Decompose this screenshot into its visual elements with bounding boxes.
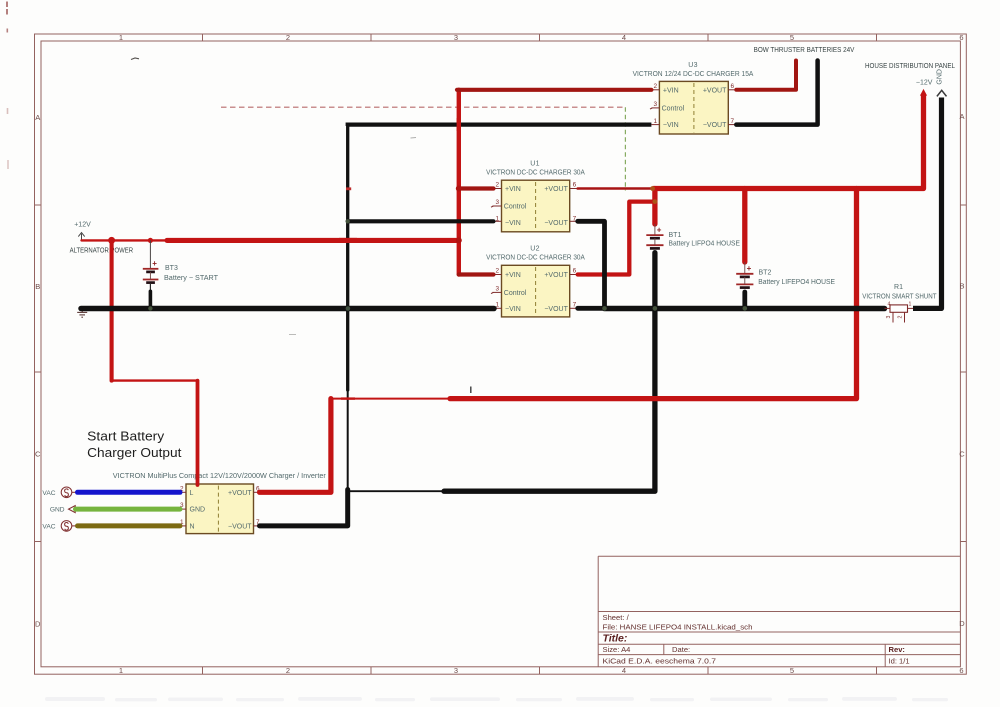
svg-text:2: 2	[495, 182, 499, 189]
svg-text:C: C	[35, 450, 41, 459]
svg-text:Start Battery: Start Battery	[87, 428, 165, 443]
svg-text:+VIN: +VIN	[505, 186, 521, 193]
svg-text:VICTRON SMART SHUNT: VICTRON SMART SHUNT	[862, 293, 937, 300]
wire alternator bus thick	[167, 238, 459, 243]
svg-text:1: 1	[119, 666, 123, 675]
svg-text:1: 1	[909, 302, 912, 308]
junction -VOUT joiner/bus	[602, 306, 607, 311]
wire alternator feed thin	[82, 239, 171, 241]
svg-text:+VOUT: +VOUT	[703, 87, 727, 94]
resistor R1 shunt	[885, 302, 914, 323]
page-edge dash-dot artifact	[7, 2, 8, 170]
junction bus/U1 out	[650, 186, 655, 191]
U1 pin numbers	[495, 182, 576, 223]
ground symbol	[77, 308, 87, 317]
junction BT1 drop/U2 link	[653, 199, 658, 204]
svg-text:Sheet: /: Sheet: /	[603, 613, 630, 622]
wire AC neutral olive	[78, 523, 181, 528]
wire U3 +VOUT to bow thruster	[736, 61, 796, 90]
svg-text:1: 1	[653, 118, 657, 125]
U2 pin stubs	[491, 275, 578, 309]
svg-text:VICTRON 12/24 DC-DC CHARGER 15: VICTRON 12/24 DC-DC CHARGER 15A	[633, 69, 754, 78]
svg-text:B: B	[959, 282, 964, 291]
svg-text:3: 3	[495, 199, 499, 206]
wire ground bus right segment	[605, 306, 885, 312]
op-amp U1 body	[502, 180, 570, 232]
battery BT3	[143, 240, 159, 291]
wire start-charger drop	[110, 240, 114, 380]
wire U3 -VOUT to bow thruster	[736, 61, 817, 125]
junction riser/U1 feed	[456, 186, 462, 192]
svg-text:+12V: +12V	[74, 222, 91, 229]
junction inverter minus riser	[345, 488, 350, 493]
svg-text:3: 3	[495, 286, 499, 293]
wire overpaint patches (red over black crossings)	[339, 238, 357, 243]
svg-text:BT2: BT2	[759, 270, 772, 277]
wire AC line blue	[78, 490, 181, 495]
junction BT1 drop/bus	[653, 306, 658, 311]
svg-text:+VIN: +VIN	[505, 272, 521, 279]
wire thin link to inverter minus	[348, 490, 446, 492]
svg-text:BT1: BT1	[669, 232, 682, 239]
svg-text:+VOUT: +VOUT	[544, 186, 568, 193]
svg-text:−VOUT: −VOUT	[544, 220, 568, 227]
svg-text:2: 2	[653, 83, 657, 90]
svg-text:GND: GND	[937, 69, 944, 85]
svg-text:VAC: VAC	[42, 490, 55, 497]
junction bus/shunt drop	[854, 186, 859, 191]
svg-text:2: 2	[495, 268, 499, 275]
svg-text:VICTRON MultiPlus Compact 12V/: VICTRON MultiPlus Compact 12V/120V/2000W…	[113, 471, 327, 480]
svg-text:−VIN: −VIN	[505, 220, 521, 227]
wire BT1 positive drop	[652, 189, 657, 225]
svg-text:VAC: VAC	[42, 523, 55, 530]
svg-text:6: 6	[959, 33, 963, 42]
U4 pin numbers	[180, 485, 260, 526]
wire U1 +VIN feed	[459, 186, 494, 190]
junction BT3/ground bus	[148, 306, 152, 310]
op-amp U2 body	[502, 265, 570, 317]
wire BT2 positive drop	[742, 189, 747, 263]
wire house GND drop	[913, 98, 942, 309]
svg-text:Battery LIFEPO4 HOUSE: Battery LIFEPO4 HOUSE	[758, 279, 835, 286]
svg-text:U3: U3	[688, 62, 698, 69]
svg-text:R1: R1	[894, 284, 903, 291]
wire U3 +VIN feed	[457, 88, 651, 92]
wire AC ground green	[76, 507, 181, 512]
TITLE-BLOCK	[598, 556, 960, 667]
wire BT1 negative drop long	[444, 253, 655, 492]
svg-text:Charger Output: Charger Output	[87, 445, 182, 460]
wire U1/U2 -VOUT joiner	[578, 221, 605, 308]
svg-text:3: 3	[886, 316, 892, 319]
svg-text:3: 3	[454, 666, 458, 675]
wire U1 +VOUT medium	[578, 187, 653, 190]
svg-text:Control: Control	[504, 204, 527, 211]
U4 pin names	[190, 490, 253, 531]
U2 pin numbers	[495, 268, 576, 309]
svg-text:VICTRON DC-DC CHARGER 30A: VICTRON DC-DC CHARGER 30A	[486, 167, 585, 176]
wire thin link to inverter plus	[331, 398, 452, 400]
svg-text:KiCad E.D.A. eeschema 7.0.7: KiCad E.D.A. eeschema 7.0.7	[603, 657, 717, 666]
connector GND arrow	[50, 506, 75, 514]
svg-text:Battery − START: Battery − START	[164, 275, 219, 282]
svg-text:2: 2	[286, 33, 290, 42]
wire U1 -VIN feed	[348, 219, 494, 223]
wire shunt feed drop	[450, 189, 857, 399]
connector J2 VAC neutral	[42, 521, 78, 532]
U4 pin stubs	[180, 492, 260, 526]
U2 pin names	[504, 272, 569, 313]
svg-text:6: 6	[959, 666, 963, 675]
wire U2 +VOUT up-link	[578, 202, 655, 275]
svg-text:−12V: −12V	[916, 80, 933, 87]
inverter U4 MultiPlus body	[186, 484, 254, 534]
power arrow GND chevron	[937, 69, 947, 96]
svg-text:6: 6	[573, 182, 577, 189]
svg-text:5: 5	[790, 666, 794, 675]
U1 pin names	[504, 186, 569, 227]
wire BT3 to gnd bus	[149, 291, 153, 308]
svg-text:−VOUT: −VOUT	[703, 122, 727, 129]
junction riser/ground bus	[346, 306, 351, 311]
svg-text:Rev:: Rev:	[889, 645, 905, 654]
svg-text:BOW THRUSTER BATTERIES 24V: BOW THRUSTER BATTERIES 24V	[754, 45, 856, 54]
svg-text:D: D	[959, 619, 965, 628]
junction BT2 stub/bus	[743, 306, 748, 311]
svg-text:4: 4	[622, 666, 626, 675]
wire red riser to chargers	[457, 90, 461, 275]
wire BT2 negative stub	[742, 292, 747, 308]
wire U2 -VOUT stub	[578, 306, 605, 311]
svg-text:Id: 1/1: Id: 1/1	[889, 657, 910, 666]
power arrow -12V	[916, 80, 933, 96]
svg-text:3: 3	[454, 33, 458, 42]
stray mark artifacts	[131, 58, 139, 60]
wire house +12V bus thick	[653, 96, 924, 189]
svg-text:Control: Control	[504, 290, 527, 297]
svg-text:−VOUT: −VOUT	[228, 523, 252, 530]
stray red stub on riser	[346, 187, 351, 190]
U3 pin numbers	[653, 83, 734, 125]
svg-text:Battery LIFPO4 HOUSE: Battery LIFPO4 HOUSE	[669, 241, 741, 248]
wire inverter +VOUT corner	[260, 399, 331, 493]
svg-text:+: +	[747, 264, 752, 273]
U3 pin names	[662, 87, 728, 129]
svg-text:4: 4	[888, 302, 891, 308]
svg-text:−VIN: −VIN	[663, 122, 679, 129]
svg-text:−VOUT: −VOUT	[544, 306, 568, 313]
junction bus/BT2 drop	[742, 186, 747, 191]
svg-text:1: 1	[119, 33, 123, 42]
svg-text:File: HANSE LIFEPO4 INSTALL.ki: File: HANSE LIFEPO4 INSTALL.kicad_sch	[603, 623, 753, 632]
svg-text:+: +	[657, 225, 662, 234]
svg-text:3: 3	[653, 101, 657, 108]
bottom faded artifact row	[45, 697, 948, 701]
svg-text:Control: Control	[662, 105, 685, 112]
svg-text:4: 4	[622, 33, 626, 42]
svg-text:+: +	[152, 259, 157, 268]
junction riser/U1 -VIN	[346, 219, 350, 223]
svg-text:B: B	[35, 282, 40, 291]
wire inverter -VOUT corner	[260, 490, 348, 526]
svg-text:C: C	[959, 450, 965, 459]
battery BT1	[646, 224, 663, 248]
wire black thin riser	[346, 125, 349, 390]
svg-text:+VOUT: +VOUT	[228, 490, 252, 497]
svg-text:D: D	[35, 620, 41, 629]
svg-text:2: 2	[286, 666, 290, 675]
svg-text:L: L	[190, 490, 194, 497]
wire black U3 -VIN feed	[348, 125, 652, 126]
svg-text:A: A	[959, 112, 964, 121]
svg-text:Title:: Title:	[603, 633, 628, 645]
control dashed line (green) down to charge bus	[624, 107, 626, 190]
svg-text:5: 5	[790, 33, 794, 42]
svg-text:GND: GND	[190, 507, 206, 514]
svg-text:A: A	[35, 113, 40, 122]
svg-text:+VOUT: +VOUT	[544, 272, 568, 279]
junction alternator/BT3	[108, 237, 115, 244]
power flag +12V	[74, 222, 91, 241]
svg-text:7: 7	[731, 118, 735, 125]
svg-text:N: N	[190, 523, 195, 530]
battery BT2	[736, 262, 753, 288]
svg-text:HOUSE DISTRIBUTION PANEL: HOUSE DISTRIBUTION PANEL	[865, 61, 955, 70]
connector J1 VAC line	[42, 487, 78, 498]
svg-text:+VIN: +VIN	[663, 87, 679, 94]
svg-text:Size: A4: Size: A4	[603, 645, 631, 654]
U3 pin stubs	[650, 90, 736, 125]
svg-text:ALTERNATOR POWER: ALTERNATOR POWER	[70, 248, 134, 255]
svg-text:6: 6	[731, 83, 735, 90]
wire U2 +VIN feed	[459, 272, 494, 276]
control dashed line (pink) from U3 control	[221, 107, 625, 190]
svg-text:2: 2	[898, 316, 904, 319]
junction riser/alternator bus	[456, 237, 462, 243]
svg-text:Date:: Date:	[672, 645, 690, 654]
U1 pin stubs	[491, 189, 578, 222]
wire ground bus left segment	[81, 306, 494, 312]
op-amp U3 body	[659, 81, 728, 134]
svg-text:BT3: BT3	[165, 265, 178, 272]
svg-text:GND: GND	[50, 507, 65, 514]
svg-text:−VIN: −VIN	[505, 306, 521, 313]
svg-text:VICTRON DC-DC CHARGER 30A: VICTRON DC-DC CHARGER 30A	[486, 252, 585, 261]
